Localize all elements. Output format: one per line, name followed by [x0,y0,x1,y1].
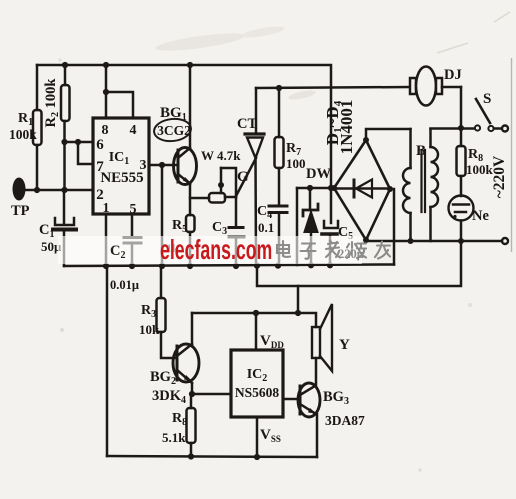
svg-text:NE555: NE555 [100,170,143,186]
op-amp timer U IC1 NE555 box [93,118,149,217]
wire pin1 to ground rail [105,214,108,266]
svg-text:7: 7 [96,159,104,175]
switch S [475,91,501,131]
wire CT top to motor [256,85,410,91]
svg-text:CT: CT [237,116,257,132]
svg-text:3DA87: 3DA87 [325,413,365,428]
svg-text:1N4001: 1N4001 [337,100,356,155]
wire pin7 jog to pin6 [78,142,93,164]
svg-text:10k: 10k [139,322,160,337]
wire mains link lower [257,241,461,313]
svg-text:R1: R1 [18,111,33,128]
wire transformer secondary top to switch [431,127,475,130]
wire pin3 to BG1 base [149,162,177,266]
svg-text:100k: 100k [466,162,494,177]
resistor R8 100k [457,146,494,196]
resistor R1 100k [9,65,42,190]
wire ground rail [64,262,394,269]
wire TP to pin2 [25,139,93,193]
svg-text:G: G [237,169,249,185]
wire VDD rail [192,310,316,327]
transformer B [403,129,438,241]
wire bridge right vertex to ground rail [393,189,396,265]
capacitor C4 0.1 [257,204,287,266]
wire pin6 to R2 junction [65,139,94,145]
scan artifact smudges [155,30,246,54]
svg-text:~220V: ~220V [491,155,508,198]
svg-text:IC1: IC1 [109,150,130,167]
svg-text:VDD: VDD [260,333,284,350]
svg-text:elecfans.com: elecfans.com [160,234,272,265]
svg-text:C1: C1 [39,222,54,240]
capacitor C3 [212,197,244,266]
svg-text:NS5608: NS5608 [235,385,280,400]
wire bridge top to transformer primary [366,129,411,140]
wire motor down to switch node [458,87,464,146]
svg-text:3DK4: 3DK4 [152,388,186,406]
op-amp U IC2 NS5608 box [231,313,284,457]
wire pins 8 and 4 to V+ [103,65,133,118]
capacitor C1 50u [39,190,76,266]
svg-text:Ne: Ne [472,208,489,224]
svg-text:8: 8 [102,123,109,138]
svg-text:6: 6 [96,137,104,153]
scan artifact right edge [511,58,513,252]
wire DC+ node DW/C5 branch [297,185,334,265]
svg-text:R3: R3 [141,303,156,320]
capacitor C2 0.01u [124,214,141,266]
wire bottom rail [107,453,317,460]
transistor BG2 3DK4 [150,313,199,406]
wire IC2 out to BG3 base [283,398,300,401]
motor DJ [410,67,462,106]
svg-text:B: B [416,143,426,159]
resistor R5 [166,215,195,266]
terminal 220V bottom [502,238,508,244]
resistor R3 10k [139,266,177,358]
wire BG2 emitter node [189,391,231,397]
terminal 220V top [502,126,508,132]
svg-text:IC2: IC2 [247,367,268,384]
svg-text:BG3: BG3 [323,389,349,407]
wire left vertical bottom section [106,266,109,456]
watermark chinese characters [277,241,390,259]
svg-text:0.01μ: 0.01μ [110,278,139,292]
resistor R8b 5.1k [162,394,196,457]
wire gate diagonal to CT [236,158,256,196]
svg-text:Y: Y [339,337,350,353]
diode bridge D1-D4 1N4001 [323,100,393,243]
svg-text:100: 100 [286,156,306,171]
wire top V+ rail [37,62,331,188]
neon lamp Ne [449,196,490,242]
speaker Y [312,304,350,371]
svg-text:W 4.7k: W 4.7k [201,148,241,163]
touch plate TP [11,178,30,220]
svg-text:DJ: DJ [444,67,462,83]
svg-text:TP: TP [11,203,30,219]
label ~220V [491,155,508,198]
resistor R7 100 [275,88,306,205]
watermark band [58,236,362,264]
svg-text:100k: 100k [9,127,37,142]
transistor BG1 3CG2 [153,65,197,215]
svg-text:VSS: VSS [260,427,281,444]
svg-text:3: 3 [140,158,147,173]
svg-text:R2 100k: R2 100k [43,78,61,128]
svg-text:S: S [483,91,491,107]
svg-text:0.1: 0.1 [258,220,274,235]
potentiometer W 4.7k [190,148,241,203]
svg-text:DW: DW [306,166,331,182]
svg-text:BG2: BG2 [150,369,176,387]
svg-text:4: 4 [130,123,137,138]
svg-text:220μ: 220μ [338,247,364,261]
capacitor C5 220u [322,188,353,265]
transistor BG3 3DA87 [298,358,365,457]
svg-text:R8: R8 [172,411,187,428]
thyristor CT [237,88,264,266]
svg-text:5.1k: 5.1k [162,430,186,445]
zener diode DW [303,166,331,265]
wire AC bottom line bridge to terminal [366,238,502,244]
resistor R2 100k [43,65,70,190]
